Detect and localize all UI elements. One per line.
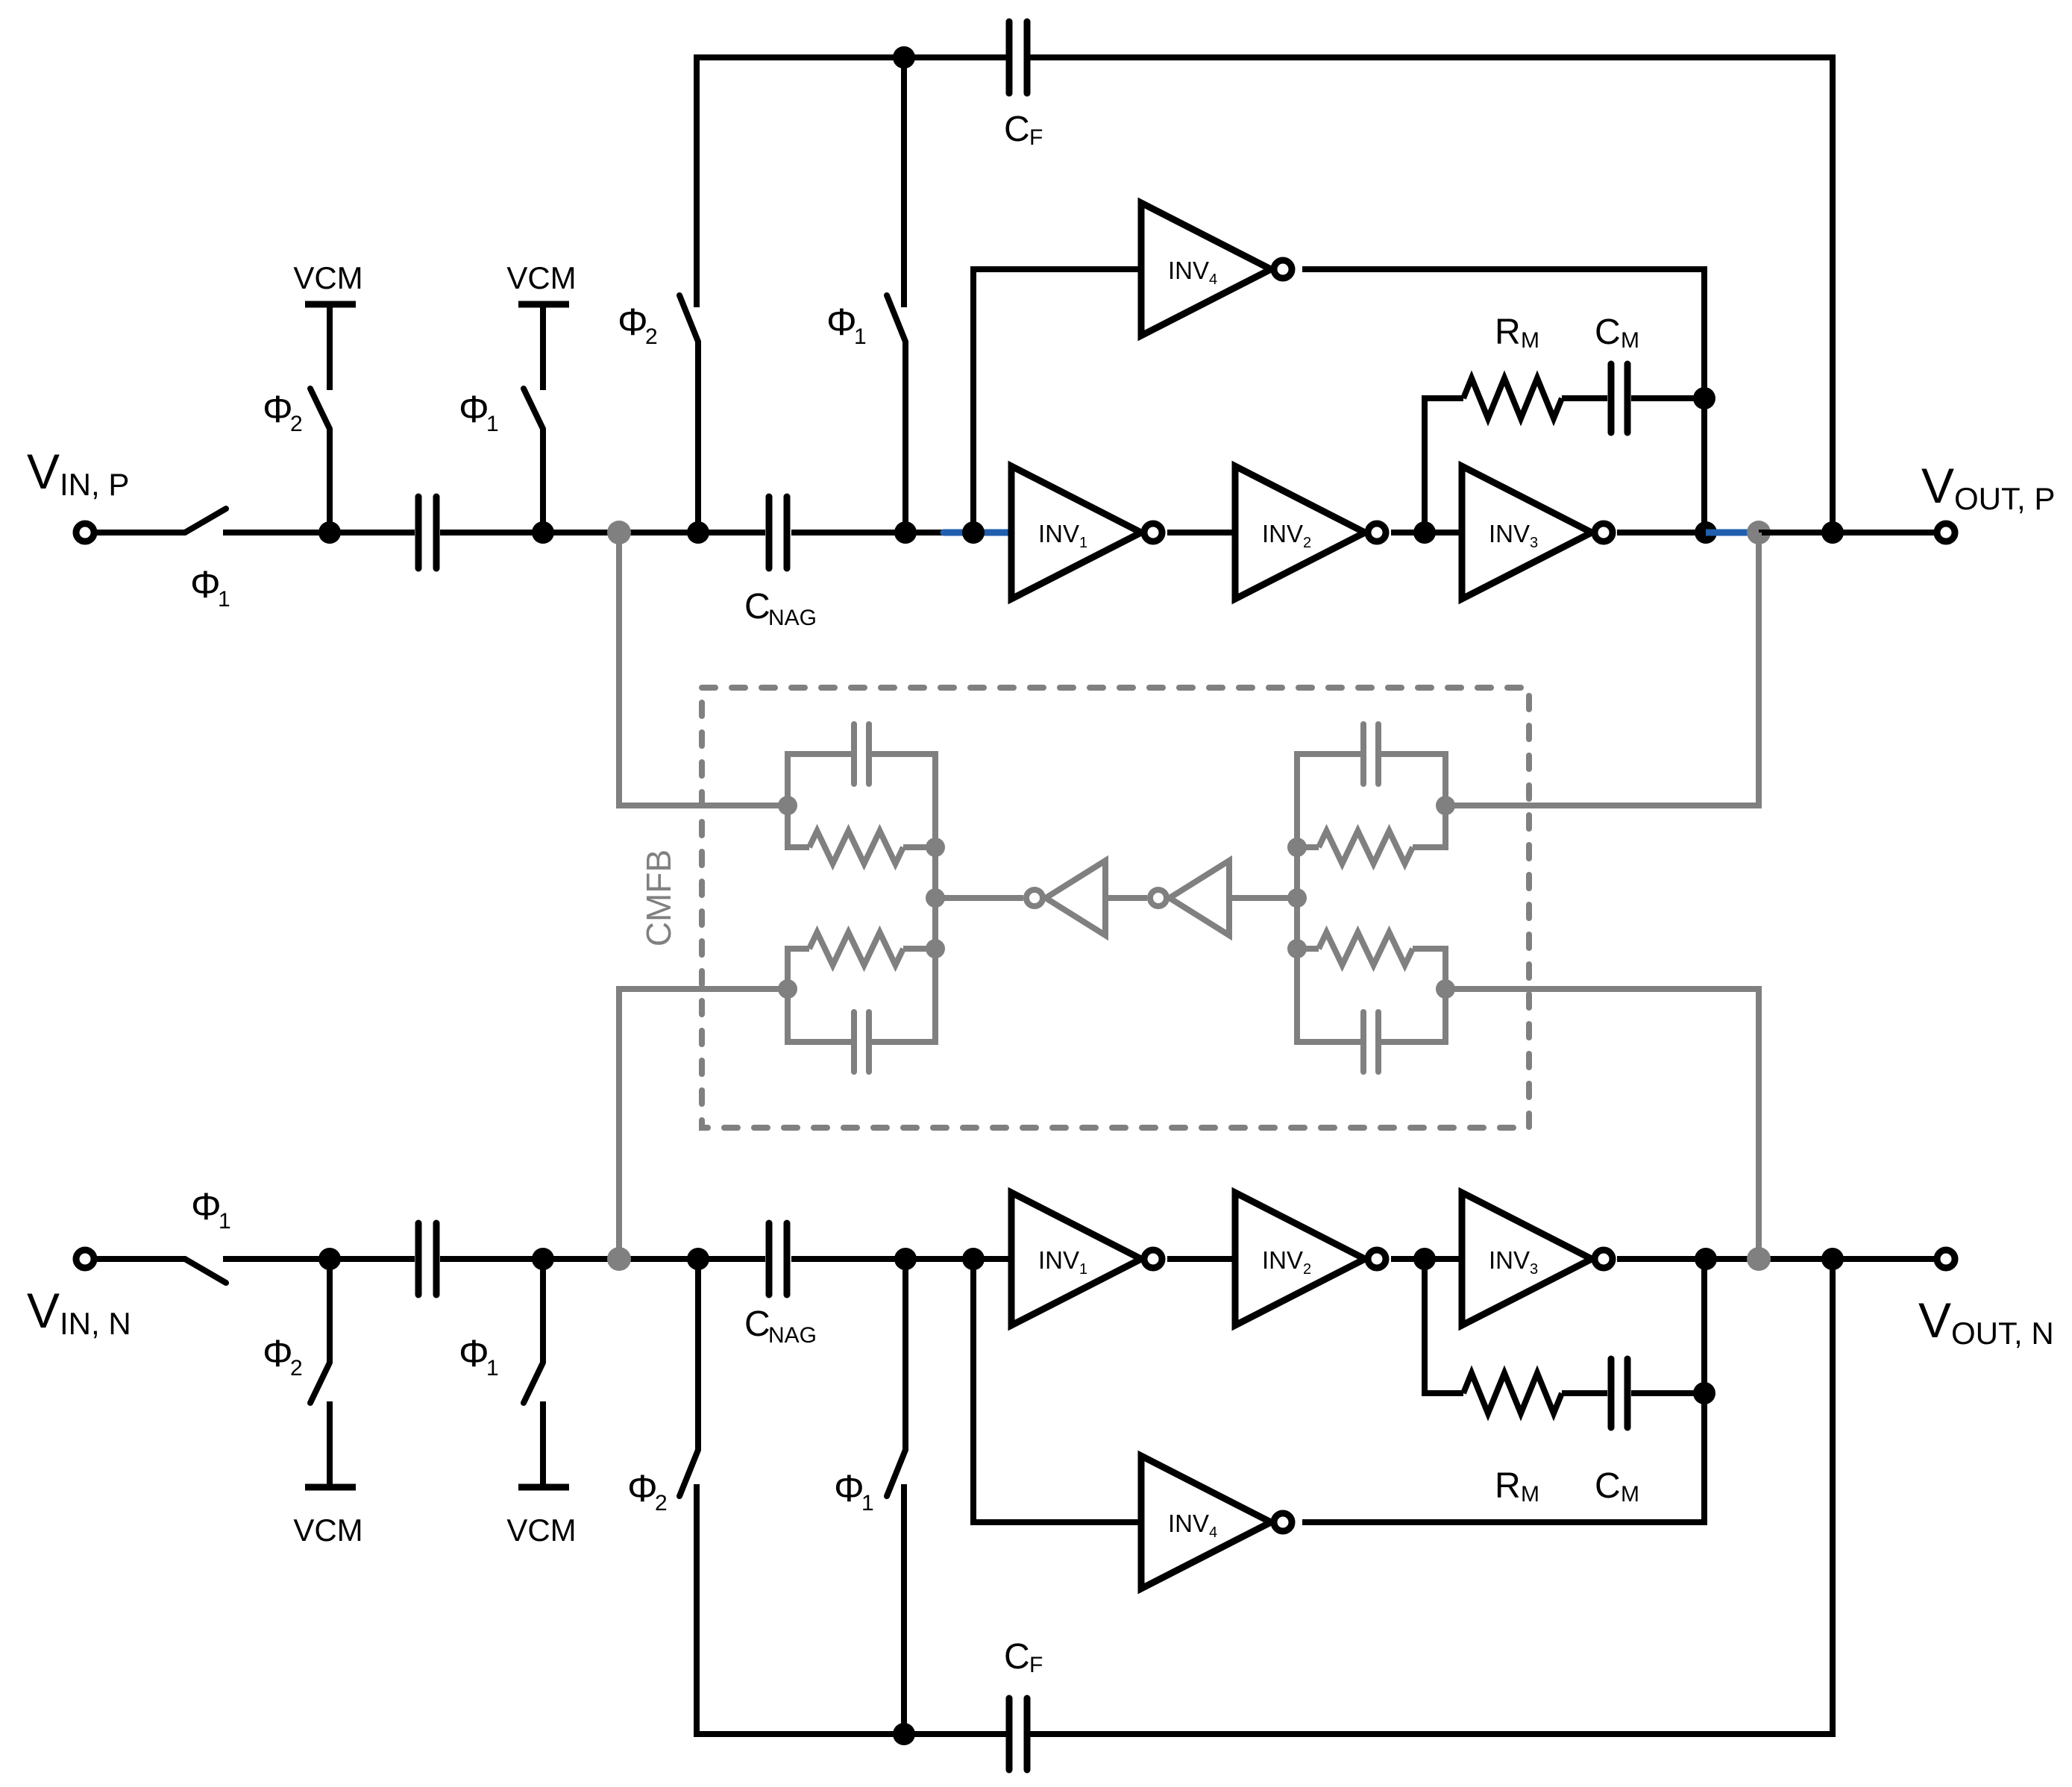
svg-text:INV: INV: [1489, 520, 1530, 547]
node CMFB right mid: [1287, 888, 1307, 908]
node B (P): [532, 521, 554, 544]
svg-text:R: R: [1495, 1466, 1521, 1506]
wire CMFB out to N rail: [1445, 989, 1759, 1259]
VCM supply symbol (P left): [305, 301, 356, 308]
svg-text:M: M: [1621, 1482, 1639, 1507]
terminal VIN,N: [76, 1250, 94, 1268]
wire output (blue, P): [1706, 530, 1756, 536]
wire switch to VCM bar: [327, 304, 333, 390]
svg-text:1: 1: [486, 1356, 499, 1381]
op-amp INV4 (P): [1141, 203, 1271, 336]
wire INV1 to INV2: [1167, 530, 1232, 536]
wire node F up to RM: [1425, 398, 1463, 533]
wire CM to node G2 (N): [1631, 1390, 1704, 1396]
node CF junction (N): [1821, 1248, 1844, 1270]
svg-text:M: M: [1621, 328, 1639, 353]
svg-text:2: 2: [645, 324, 658, 349]
CMFB dashed box: [702, 688, 1529, 1128]
svg-text:VCM: VCM: [293, 260, 362, 295]
svg-text:V: V: [27, 444, 60, 499]
CMFB left lower RC frame: [788, 949, 851, 1042]
switch &#934;1 (N feedback) blade: [887, 1450, 905, 1496]
wire switch to VCM bar: [327, 1401, 333, 1487]
wire CMFB out to P rail: [1445, 533, 1759, 805]
wire switch to VCM bar: [540, 1401, 546, 1487]
wire INV2 to node F: [1391, 530, 1459, 536]
wire node G2 up to rail: [1701, 1259, 1707, 1393]
svg-text:Φ: Φ: [834, 1467, 864, 1510]
svg-text:Φ: Φ: [459, 1332, 489, 1375]
node B2 (N): [532, 1248, 554, 1270]
wire switch down to CF rail: [901, 1484, 907, 1734]
svg-text:1: 1: [1079, 1261, 1087, 1278]
node E2 virtual ground (N): [962, 1248, 985, 1270]
svg-text:Φ: Φ: [191, 1185, 222, 1228]
svg-text:2: 2: [655, 1491, 668, 1516]
svg-text:INV: INV: [1262, 1246, 1303, 1274]
capacitor CS (N sampling): [415, 1223, 422, 1295]
wire CMFB in from N rail: [619, 989, 788, 1259]
wire node A up to switch: [327, 429, 333, 533]
svg-text:C: C: [1595, 1466, 1621, 1506]
svg-text:C: C: [1595, 313, 1621, 352]
svg-text:Φ: Φ: [618, 301, 648, 343]
node CF/&#934;1 junction (P): [893, 46, 915, 69]
wire node C2 down to switch: [695, 1259, 701, 1450]
svg-text:C: C: [1004, 110, 1030, 149]
resistor CMFB R4: [1319, 932, 1413, 965]
svg-text:2: 2: [290, 1356, 303, 1381]
wire CNAG to virtual ground node: [791, 530, 944, 536]
wire INV3 to output (N): [1617, 1256, 1934, 1262]
svg-text:Φ: Φ: [459, 388, 489, 430]
svg-text:IN, N: IN, N: [60, 1306, 131, 1341]
wire switch to node A: [223, 530, 415, 536]
svg-text:3: 3: [1530, 535, 1538, 551]
node CMFB R1 out: [926, 838, 945, 857]
capacitor CF (N): [1006, 1698, 1013, 1770]
node CMFB left-in lower: [778, 979, 797, 999]
svg-text:4: 4: [1209, 1524, 1217, 1541]
wire VIN,P to switch: [97, 530, 185, 536]
svg-text:INV: INV: [1168, 1510, 1209, 1537]
svg-text:1: 1: [1079, 535, 1087, 551]
capacitor CMFB C4: [1360, 1012, 1366, 1072]
node H2 (N): [1695, 1248, 1717, 1270]
svg-text:1: 1: [218, 587, 230, 612]
op-amp CMFB inverter B: [1170, 861, 1229, 935]
node C2 (N): [687, 1248, 709, 1270]
wire node B2 down to switch: [540, 1259, 546, 1363]
svg-text:4: 4: [1209, 271, 1217, 288]
svg-text:M: M: [1521, 328, 1539, 353]
svg-text:VCM: VCM: [293, 1513, 362, 1548]
wire CMFB inverter B input: [1229, 895, 1297, 901]
wire INV3 to node H: [1617, 530, 1706, 536]
svg-text:1: 1: [854, 324, 867, 349]
switch &#934;1 (input N) blade: [185, 1259, 226, 1283]
op-amp INV1 (P): [1011, 466, 1141, 599]
node CMFB tap (P): [607, 521, 631, 544]
capacitor CNAG (N): [766, 1223, 773, 1295]
node G2 (N): [1693, 1382, 1715, 1404]
node E virtual ground (P): [962, 521, 985, 544]
node CMFB tap (N): [607, 1247, 631, 1271]
resistor CMFB R3: [1319, 831, 1413, 864]
CMFB left upper RC frame: [788, 754, 851, 847]
wire CMFB mid to inverter A: [935, 895, 1023, 901]
op-amp INV2 (P): [1235, 466, 1365, 599]
svg-text:OUT, N: OUT, N: [1951, 1316, 2054, 1351]
CMFB right upper RC frame: [1297, 754, 1360, 847]
wire node E up to INV4 input: [973, 269, 1138, 533]
capacitor CS (P sampling): [415, 497, 422, 568]
node A2 (N): [318, 1248, 341, 1270]
svg-text:C: C: [1004, 1637, 1030, 1677]
wire CF vertical (N): [1030, 1259, 1833, 1734]
wire INV2 to node F2: [1391, 1256, 1459, 1262]
svg-text:NAG: NAG: [768, 606, 817, 630]
terminal VOUT,N: [1937, 1250, 1955, 1268]
wire CMFB right mid column: [1294, 847, 1300, 949]
wire RM to CM (P): [1562, 395, 1607, 401]
wire node C up to switch: [695, 342, 701, 533]
op-amp INV4 (N): [1141, 1456, 1271, 1589]
svg-text:V: V: [1918, 1293, 1951, 1348]
svg-text:Φ: Φ: [627, 1467, 658, 1510]
node CMFB right-out upper: [1436, 796, 1455, 815]
wire VIN,N to switch: [97, 1256, 185, 1262]
wire CNAG to virtual ground node (N): [791, 1256, 1008, 1262]
svg-text:R: R: [1495, 313, 1521, 352]
node CMFB left mid: [926, 888, 945, 908]
switch &#934;1 (input P) blade: [185, 509, 226, 533]
wire CMFB in from P rail: [619, 533, 788, 805]
svg-text:INV: INV: [1262, 520, 1303, 547]
node C (P): [687, 521, 709, 544]
wire node E2 down to INV4 input: [973, 1259, 1138, 1522]
wire node G up to INV4 output: [1302, 269, 1704, 398]
svg-text:Φ: Φ: [263, 388, 293, 430]
wire switch down to CF rail: [697, 1484, 1006, 1734]
wire switch up to CF rail: [697, 57, 1006, 307]
svg-text:M: M: [1521, 1482, 1539, 1507]
wire INV1 to INV2 (N): [1167, 1256, 1232, 1262]
wire RM to CM (N): [1562, 1390, 1607, 1396]
resistor CMFB R2: [809, 932, 903, 965]
node CF junction (P): [1821, 521, 1844, 544]
capacitor CMFB C3: [1360, 724, 1366, 784]
svg-text:CMFB: CMFB: [639, 849, 678, 946]
wire virtual ground (blue, P): [944, 530, 1008, 536]
svg-text:2: 2: [290, 412, 303, 436]
svg-text:C: C: [744, 587, 770, 626]
VCM supply symbol (P right): [518, 301, 569, 308]
op-amp CMFB inverter A: [1046, 861, 1105, 935]
switch &#934;2 to VCM (N) blade: [310, 1363, 330, 1403]
op-amp INV3 (P): [1462, 466, 1592, 599]
op-amp INV2 (N): [1235, 1193, 1365, 1325]
switch &#934;2 (P feedback) blade: [679, 295, 698, 342]
VCM supply symbol (N left): [305, 1484, 356, 1491]
svg-text:1: 1: [486, 412, 499, 436]
capacitor CMFB C2: [851, 1012, 857, 1072]
svg-text:Φ: Φ: [826, 301, 857, 343]
resistor RM (P): [1463, 378, 1562, 418]
switch &#934;1 to VCM (N) blade: [524, 1363, 543, 1403]
svg-text:INV: INV: [1038, 520, 1079, 547]
wire node G down to rail: [1701, 398, 1707, 533]
svg-text:Φ: Φ: [263, 1332, 293, 1375]
wire node F2 down to RM: [1425, 1259, 1463, 1393]
svg-text:C: C: [744, 1304, 770, 1344]
switch &#934;2 to VCM (P) blade: [310, 389, 330, 429]
node F2 (N): [1413, 1248, 1436, 1270]
svg-text:INV: INV: [1168, 257, 1209, 284]
switch &#934;1 (P feedback) blade: [887, 295, 905, 342]
terminal VOUT,P: [1937, 524, 1955, 541]
node A (P): [318, 521, 341, 544]
node CMFB R4 in: [1287, 939, 1307, 958]
svg-text:VCM: VCM: [506, 260, 576, 295]
wire CMFB inverter A to B: [1105, 895, 1147, 901]
CMFB right lower RC frame: [1297, 949, 1360, 1042]
svg-text:NAG: NAG: [768, 1323, 817, 1348]
wire CMFB left mid column: [932, 847, 938, 949]
node CMFB tap out (P): [1747, 521, 1771, 544]
capacitor CMFB C1: [851, 724, 857, 784]
svg-text:OUT, P: OUT, P: [1954, 481, 2055, 516]
node G (P): [1693, 387, 1715, 409]
svg-text:1: 1: [861, 1491, 874, 1516]
wire CF vertical (P): [1030, 57, 1833, 533]
svg-text:Φ: Φ: [190, 563, 221, 606]
node CMFB left-in upper: [778, 796, 797, 815]
switch &#934;2 (N feedback) blade: [679, 1450, 698, 1496]
node CF/&#934;1 junction (N): [893, 1723, 915, 1745]
node F (P): [1413, 521, 1436, 544]
svg-text:IN, P: IN, P: [60, 467, 129, 502]
svg-text:INV: INV: [1038, 1246, 1079, 1274]
switch &#934;1 to VCM (P) blade: [524, 389, 543, 429]
node D2 (N): [894, 1248, 917, 1270]
VCM supply symbol (N right): [518, 1484, 569, 1491]
resistor CMFB R1: [809, 831, 903, 864]
svg-text:1: 1: [219, 1209, 231, 1234]
svg-text:INV: INV: [1489, 1246, 1530, 1274]
terminal VIN,P: [76, 524, 94, 541]
op-amp INV3 (N): [1462, 1193, 1592, 1325]
svg-text:V: V: [1921, 458, 1954, 513]
svg-text:3: 3: [1530, 1261, 1538, 1278]
svg-text:2: 2: [1303, 1261, 1311, 1278]
node CMFB tap out (N): [1747, 1247, 1771, 1271]
wire node G2 down to INV4 output: [1302, 1393, 1704, 1522]
node CMFB R3 in: [1287, 838, 1307, 857]
resistor RM (N): [1463, 1373, 1562, 1413]
wire node A2 down to switch: [327, 1259, 333, 1363]
wire to output VOUT,P: [1759, 530, 1934, 536]
node CMFB right-out lower: [1436, 979, 1455, 999]
wire CM to node G (P): [1631, 395, 1704, 401]
wire switch to VCM bar: [540, 304, 546, 390]
node CMFB R2 out: [926, 939, 945, 958]
capacitor CF (P): [1006, 22, 1013, 93]
wire CS to node B2: [440, 1256, 765, 1262]
wire switch to node A2: [223, 1256, 415, 1262]
svg-text:2: 2: [1303, 535, 1311, 551]
svg-text:VCM: VCM: [506, 1513, 576, 1548]
wire switch up to CF rail: [901, 57, 907, 307]
wire node D2 down to switch: [902, 1259, 908, 1450]
capacitor CM (N): [1608, 1359, 1615, 1428]
capacitor CM (P): [1608, 364, 1615, 433]
wire CS to node B: [440, 530, 765, 536]
wire node D up to switch: [902, 342, 908, 533]
svg-text:F: F: [1029, 1653, 1043, 1677]
node H (P): [1695, 521, 1717, 544]
svg-text:V: V: [27, 1283, 60, 1338]
svg-text:F: F: [1029, 125, 1043, 150]
op-amp INV1 (N): [1011, 1193, 1141, 1325]
node D (P): [894, 521, 917, 544]
capacitor CNAG (P): [766, 497, 773, 568]
wire node B up to switch: [540, 429, 546, 533]
